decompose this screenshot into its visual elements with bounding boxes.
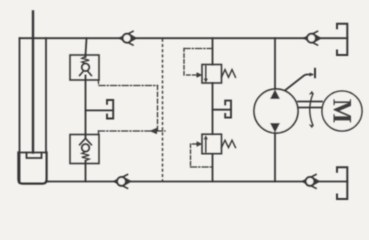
- svg-text:M: M: [328, 99, 357, 124]
- pilot-operated check valve V2 (lower left box): [70, 135, 99, 164]
- wire pump verticals: [274, 38, 276, 89]
- wire bottom main line: [46, 181, 347, 183]
- pilot line from V1 (dash-dot): [99, 80, 158, 131]
- electric motor M: [322, 91, 362, 131]
- wire left branch vertical: [86, 38, 87, 55]
- wire branch to left test port: [86, 109, 114, 111]
- check valve CV1 (top left): [120, 31, 138, 45]
- rotation direction arc on shaft: [309, 91, 313, 128]
- variable displacement arrow on pump: [285, 69, 315, 91]
- wire middle branch vertical: [212, 38, 214, 64]
- shaft pump-motor (double line): [298, 102, 322, 108]
- relief valve RV1 (upper): [202, 65, 236, 84]
- wire branch to middle test port: [213, 109, 232, 111]
- pilot line to V2 (dash-dot with arrow): [99, 131, 166, 135]
- coupling C1 (top right bracket): [337, 24, 347, 55]
- check valve CV3 (top right): [304, 31, 322, 45]
- pump PU (bidirectional, variable): [254, 89, 298, 133]
- check valve CV4 (bottom right): [303, 175, 321, 189]
- cylinder C (single-acting ram): [18, 12, 48, 184]
- pilot line vertical (dotted, top to bottom): [162, 40, 164, 182]
- coupling C2 (bottom right bracket): [337, 167, 347, 199]
- relief valve RV2 (lower): [202, 134, 236, 154]
- check valve CV2 (bottom left): [114, 175, 132, 189]
- pilot-operated check valve V1 (upper left box): [70, 55, 99, 80]
- motor letter M (rotated): [328, 99, 357, 124]
- pilot arrow into V2 line: [150, 128, 158, 134]
- pilot of RV2 (dash, arrow into box, down and to main line): [191, 144, 212, 167]
- test-port coupling P2 (middle small bracket): [225, 101, 231, 118]
- pilot of RV1 (dash, arrow into box, up and over to line): [184, 49, 212, 76]
- test-port coupling P1 (left small bracket): [107, 100, 113, 119]
- wire top main line: [20, 37, 348, 39]
